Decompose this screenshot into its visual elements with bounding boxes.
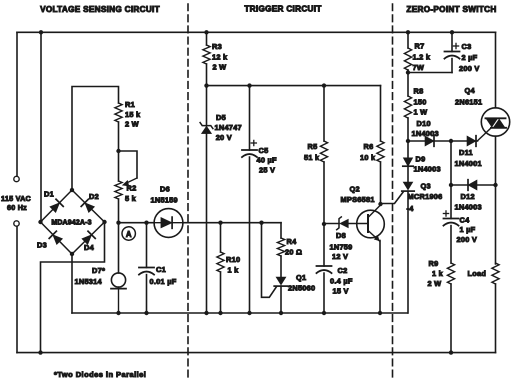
label: R1 15 k 2 W (125, 100, 141, 129)
label: D4 (84, 243, 95, 252)
wire: C1 bottom to DC- bus (146, 275, 148, 313)
svg-text:A: A (126, 230, 132, 239)
node: C5 top (247, 83, 251, 87)
svg-text:D5: D5 (216, 113, 226, 122)
wire: triac gate lead (478, 127, 492, 141)
wire: bridge DC+ up and over to R1 (72, 87, 119, 191)
node: D12 wire left junction (449, 183, 453, 187)
label: R6 10 k (360, 142, 376, 162)
svg-text:*Two Diodes in Parallel: *Two Diodes in Parallel (54, 370, 146, 379)
diode D10 1N4003 (425, 136, 434, 147)
wire: R4 bottom to Q1 anode (280, 256, 282, 277)
svg-text:0.4 µF: 0.4 µF (330, 277, 353, 286)
svg-text:200 V: 200 V (459, 64, 480, 73)
svg-text:15 V: 15 V (333, 287, 349, 296)
svg-text:R3: R3 (212, 42, 222, 51)
svg-text:7W: 7W (413, 63, 425, 72)
label: Q3 MCR1906 -4 (407, 182, 443, 214)
title: TRIGGER CIRCUIT (244, 5, 321, 14)
node: R10 on DC- bus (218, 311, 222, 315)
svg-text:D8: D8 (336, 231, 346, 240)
wire: R7 top lead (407, 32, 409, 48)
label: R10 1 k (226, 255, 240, 275)
svg-text:D4: D4 (84, 243, 95, 252)
label: R8 150 1 W (414, 87, 428, 117)
resistor R10 (217, 252, 224, 272)
label: D1 (44, 190, 54, 199)
wire: Q1 gate path (262, 223, 277, 298)
svg-text:1N4003: 1N4003 (455, 203, 482, 212)
wire: R8 top lead (407, 73, 409, 97)
label: 115 VAC 60 Hz source (1, 194, 31, 212)
node: D10/D11/C4 junction (449, 139, 453, 143)
section divider (dashed) right (392, 4, 394, 378)
polarity + of C4 (443, 211, 448, 216)
SCR Q1 2N5060 (274, 277, 288, 286)
wire: D9 top lead (407, 141, 409, 158)
wire: C1 branch down (146, 223, 148, 268)
svg-text:40 µF: 40 µF (257, 156, 278, 165)
node: R5/D8/C2 junction (322, 222, 326, 226)
diode D4 (bridge lower-right) (82, 231, 95, 244)
diode D3 (bridge lower-left) (49, 231, 62, 244)
wire: D10/D11 wire (408, 140, 478, 142)
label: D3 (37, 241, 47, 250)
wire: R7 bottom junction (407, 70, 409, 73)
svg-text:Q4: Q4 (465, 86, 476, 95)
node: C3 top on AC bus (450, 30, 454, 34)
node: trigger +20V rail left (204, 83, 208, 87)
node: C2 on DC- bus (322, 311, 326, 315)
svg-text:2 W: 2 W (125, 120, 139, 129)
svg-text:51 k: 51 k (304, 153, 320, 162)
footnote: *Two Diodes in Parallel (54, 370, 146, 379)
label: C5 40 uF 25 V (257, 146, 278, 175)
svg-text:R2: R2 (127, 184, 137, 193)
svg-text:1.2 k: 1.2 k (413, 53, 431, 62)
svg-text:0.01 µF: 0.01 µF (150, 277, 177, 286)
node: Q2 collector / Q3 gate node (378, 202, 382, 206)
current-regulator diode D7 1N5314 (111, 273, 126, 313)
label: R4 20 ohm (285, 237, 302, 257)
wire: D12 wire (451, 184, 496, 186)
diode D2 (bridge upper-right) (81, 199, 94, 212)
wire: junction to R2 (118, 151, 120, 181)
wire: collector node to Q3 gate (381, 192, 404, 204)
capacitor C3 (electrolytic) (445, 52, 460, 59)
wire: D9 to Q3 (407, 166, 409, 182)
svg-text:MCR1906: MCR1906 (408, 192, 443, 201)
label: R7 1.2 k 7W (413, 42, 431, 73)
pot wiper arrow of R2 (123, 178, 138, 186)
wire: C4 branch (450, 141, 452, 219)
label: R3 12 k 2 W (212, 42, 228, 72)
svg-text:D3: D3 (37, 241, 47, 250)
wire: Q1 cathode to DC- bus (280, 286, 282, 313)
label: C1 0.01 uF (150, 265, 177, 286)
wire: R6 bottom to collector node (380, 162, 382, 204)
resistor R10 lead (220, 223, 222, 252)
wire: C3 bottom lead (451, 59, 453, 73)
svg-text:1N759: 1N759 (330, 243, 353, 252)
wire: R10 bottom to DC- bus (220, 272, 222, 313)
resistor R4 (277, 238, 284, 256)
svg-text:R10: R10 (226, 255, 240, 264)
wire: bottom return rail (17, 352, 496, 354)
svg-text:1N4003: 1N4003 (412, 129, 439, 138)
svg-text:R6: R6 (364, 142, 374, 151)
wire: D8 anode to Q2 base (348, 223, 368, 225)
svg-text:1N4001: 1N4001 (455, 159, 482, 168)
wire: node-A line D6 to R4 (183, 222, 281, 224)
node: D12 wire right junction (493, 183, 497, 187)
label: R9 1 k 2 W (428, 259, 444, 288)
svg-text:150: 150 (414, 98, 427, 107)
node: C1 top junction (144, 221, 148, 225)
wire: top AC bus (17, 31, 496, 33)
resistor R9 (447, 263, 454, 284)
label: D5 1N4747 20 V (215, 113, 242, 142)
wire: R9 bottom to bottom rail (450, 284, 452, 353)
node: D7 on DC- bus (116, 311, 120, 315)
SCR Q3 MCR1906-4 (402, 182, 414, 191)
svg-text:MPS6581: MPS6581 (341, 195, 375, 204)
capacitor C4 (electrolytic) (444, 219, 459, 226)
label: D11 1N4001 (455, 148, 482, 168)
node: R1/R2 wiper junction (116, 149, 120, 153)
capacitor C5 (electrolytic) (242, 150, 257, 157)
wire: R1 bottom to junction (118, 122, 120, 151)
svg-text:ZERO-POINT SWITCH: ZERO-POINT SWITCH (406, 5, 496, 14)
svg-text:2 µF: 2 µF (462, 53, 478, 62)
wire: C2 branch (323, 224, 325, 266)
diode D9 1N4003 (403, 158, 413, 166)
label: D7* 1N5314 (75, 266, 106, 286)
svg-text:C2: C2 (338, 266, 348, 275)
wire: wiper branch (119, 151, 138, 178)
svg-text:TRIGGER CIRCUIT: TRIGGER CIRCUIT (244, 5, 321, 14)
svg-text:D11: D11 (459, 148, 473, 157)
svg-text:Q2: Q2 (350, 185, 360, 194)
svg-text:2 W: 2 W (213, 63, 227, 72)
label: D8 1N759 12 V (330, 231, 353, 261)
node: C5 on DC- bus (247, 311, 251, 315)
polarity + of C3 (453, 43, 458, 48)
svg-text:1 W: 1 W (414, 108, 428, 117)
node: R3 top on AC bus (204, 30, 208, 34)
zener D8 1N759 (337, 217, 349, 230)
node: junction top bus / bridge AC1 (39, 30, 43, 34)
label: C2 0.4 uF 15 V (330, 266, 353, 296)
wire: D7 branch down (118, 223, 120, 273)
wire: bridge DC- drop (71, 254, 73, 313)
wire: R7-C3 link (408, 72, 452, 74)
transistor Q2 MPS6581 (NPN) (357, 205, 385, 241)
svg-text:D1: D1 (44, 190, 54, 199)
terminal: 115 VAC bottom (14, 221, 19, 226)
wire: R5 top lead (323, 86, 325, 141)
svg-text:D6: D6 (160, 185, 170, 194)
node: R5 top (322, 83, 326, 87)
svg-text:60 Hz: 60 Hz (7, 203, 27, 212)
resistor R1 (115, 103, 122, 122)
wire: Q2 emitter to DC- bus (379, 241, 381, 314)
svg-text:Q3: Q3 (421, 182, 431, 191)
resistor R3 (203, 45, 210, 64)
node: Q1 gate tap (259, 221, 263, 225)
label: Load (468, 269, 487, 278)
resistor R6 (377, 141, 384, 162)
svg-text:115 VAC: 115 VAC (1, 194, 31, 203)
svg-text:R9: R9 (429, 259, 439, 268)
wire: Q3 cathode down to trigger DC- bus (407, 191, 409, 313)
label: R5 51 k (304, 142, 320, 162)
resistor R8 (404, 96, 411, 118)
wire: left drop to source terminal (16, 32, 18, 176)
svg-text:D12: D12 (461, 192, 475, 201)
capacitor C1 (139, 268, 154, 275)
wire: trigger +20V rail (207, 85, 381, 87)
node: D5 on DC- bus (204, 311, 208, 315)
svg-text:5 k: 5 k (125, 194, 137, 203)
svg-text:MDA942A-3: MDA942A-3 (51, 220, 91, 227)
svg-text:1N5159: 1N5159 (151, 196, 178, 205)
label: C3 2 uF 200 V (459, 42, 480, 73)
wire: R5 bottom to D8 junction (323, 162, 325, 224)
svg-text:VOLTAGE SENSING CIRCUIT: VOLTAGE SENSING CIRCUIT (40, 5, 160, 14)
svg-text:15 k: 15 k (125, 110, 141, 119)
node: junction node-A line (116, 221, 120, 225)
wire: AC1 drop to bridge left vertex (40, 32, 42, 222)
svg-text:D9: D9 (416, 155, 426, 164)
wire: C5 bottom to DC- bus (249, 157, 251, 313)
rectifier bridge MDA942A-3 outline (41, 190, 105, 254)
title: VOLTAGE SENSING CIRCUIT (40, 5, 160, 14)
wire: load bottom to rail (495, 284, 497, 353)
svg-text:1 µF: 1 µF (460, 225, 476, 234)
svg-text:R8: R8 (414, 87, 424, 96)
label: R2 5 k (125, 184, 137, 204)
svg-text:C3: C3 (462, 42, 472, 51)
svg-text:2 W: 2 W (428, 279, 442, 288)
polarity + of C5 (251, 140, 256, 145)
label: MDA942A-3 (51, 220, 91, 227)
wire: C5 top lead (249, 86, 251, 150)
diode D11 1N4001 (467, 136, 476, 147)
label: D6 1N5159 (151, 185, 178, 205)
node: Q1 on DC- bus (279, 311, 283, 315)
label: Q1 2N5060 (288, 273, 315, 293)
svg-text:R4: R4 (287, 237, 298, 246)
svg-text:D10: D10 (417, 119, 431, 128)
svg-text:R1: R1 (125, 100, 135, 109)
svg-text:20 V: 20 V (216, 133, 232, 142)
svg-text:1 k: 1 k (432, 269, 444, 278)
svg-text:10 k: 10 k (360, 153, 376, 162)
wire: R3 top lead (206, 32, 208, 45)
node: R9 on bottom rail (449, 350, 453, 354)
wire: R8 bottom to D10 node (407, 118, 409, 141)
wire: C2 bottom to DC- bus (323, 273, 325, 313)
label: D2 (89, 192, 99, 201)
svg-text:Q1: Q1 (296, 273, 306, 282)
wire: R2 bottom to node A junction (118, 199, 120, 223)
svg-text:D2: D2 (89, 192, 99, 201)
node: D10 wire junction (406, 139, 410, 143)
label: D12 1N4003 (455, 192, 482, 212)
svg-text:1N4003: 1N4003 (414, 165, 441, 174)
label: Q4 2N6151 (455, 86, 482, 107)
node: bridge top vertex (DC+) (70, 188, 74, 192)
wire: C3 top lead (451, 32, 453, 51)
svg-text:D7*: D7* (92, 266, 105, 275)
section divider (dashed) left (187, 4, 189, 378)
wire: DC- bus (72, 312, 408, 314)
triac Q4 2N6151 (481, 108, 509, 136)
diode D1 (bridge upper-left) (50, 199, 63, 212)
node: R7/C3 junction (406, 70, 410, 74)
svg-text:20 Ω: 20 Ω (285, 248, 302, 257)
label: D10 1N4003 (412, 119, 439, 138)
svg-text:12 V: 12 V (332, 252, 348, 261)
svg-text:C1: C1 (156, 265, 166, 274)
resistor R5 (320, 141, 327, 162)
resistor Load (492, 263, 499, 284)
wire: junction to D8 cathode (324, 223, 339, 225)
wire: triac MT1 down (495, 136, 497, 264)
svg-text:2N6151: 2N6151 (455, 98, 482, 107)
svg-text:12 k: 12 k (212, 53, 228, 62)
resistor R7 (404, 48, 411, 70)
svg-text:25 V: 25 V (259, 166, 275, 175)
node: R10 top (218, 221, 222, 225)
wire: R4 top corner (280, 223, 282, 238)
svg-text:1N4747: 1N4747 (215, 123, 242, 132)
capacitor C2 (317, 266, 332, 273)
title: ZERO-POINT SWITCH (406, 5, 496, 14)
label: C4 1 uF 200 V (457, 216, 478, 245)
zener D5 1N4747 (200, 123, 213, 134)
node A marker (122, 227, 135, 240)
svg-text:Load: Load (468, 269, 487, 278)
svg-text:R7: R7 (415, 42, 425, 51)
node: bridge bottom vertex (DC-) (70, 252, 74, 256)
wire: node A line into D6 (119, 222, 155, 224)
svg-text:C5: C5 (259, 146, 269, 155)
svg-text:1N5314: 1N5314 (75, 277, 103, 286)
terminal: 115 VAC top (14, 176, 19, 181)
wire: R6 top corner (380, 86, 382, 141)
wire: D5 anode down to DC- bus (206, 134, 208, 313)
wire: source bottom to lower rail (16, 227, 18, 353)
node: bridge left vertex (38, 220, 42, 224)
node: R7 top on AC bus (406, 30, 410, 34)
svg-text:2N5060: 2N5060 (288, 284, 315, 293)
potentiometer R2 (115, 181, 122, 199)
node: bridge right vertex (102, 220, 106, 224)
diode D12 1N4003 (468, 180, 477, 191)
svg-text:R5: R5 (308, 142, 318, 151)
diode D6 1N5159 (circled) (154, 209, 183, 238)
node: C1 on DC- bus (144, 311, 148, 315)
svg-text:200 V: 200 V (457, 235, 478, 244)
node: Q2 emitter on DC- bus (378, 311, 382, 315)
svg-text:C4: C4 (460, 216, 471, 225)
wire: triac MT2 from AC bus (495, 32, 497, 108)
label: D9 1N4003 (414, 155, 441, 174)
wire: R3 bottom to trigger rail (206, 64, 208, 86)
node: AC2 on bottom rail (38, 350, 42, 354)
svg-text:1 k: 1 k (228, 266, 240, 275)
wire: bridge AC2 link (41, 222, 105, 353)
wire: D5 lead (206, 86, 208, 126)
label: Q2 MPS6581 (341, 185, 375, 205)
wire: C4 bottom to R9 (450, 226, 452, 263)
